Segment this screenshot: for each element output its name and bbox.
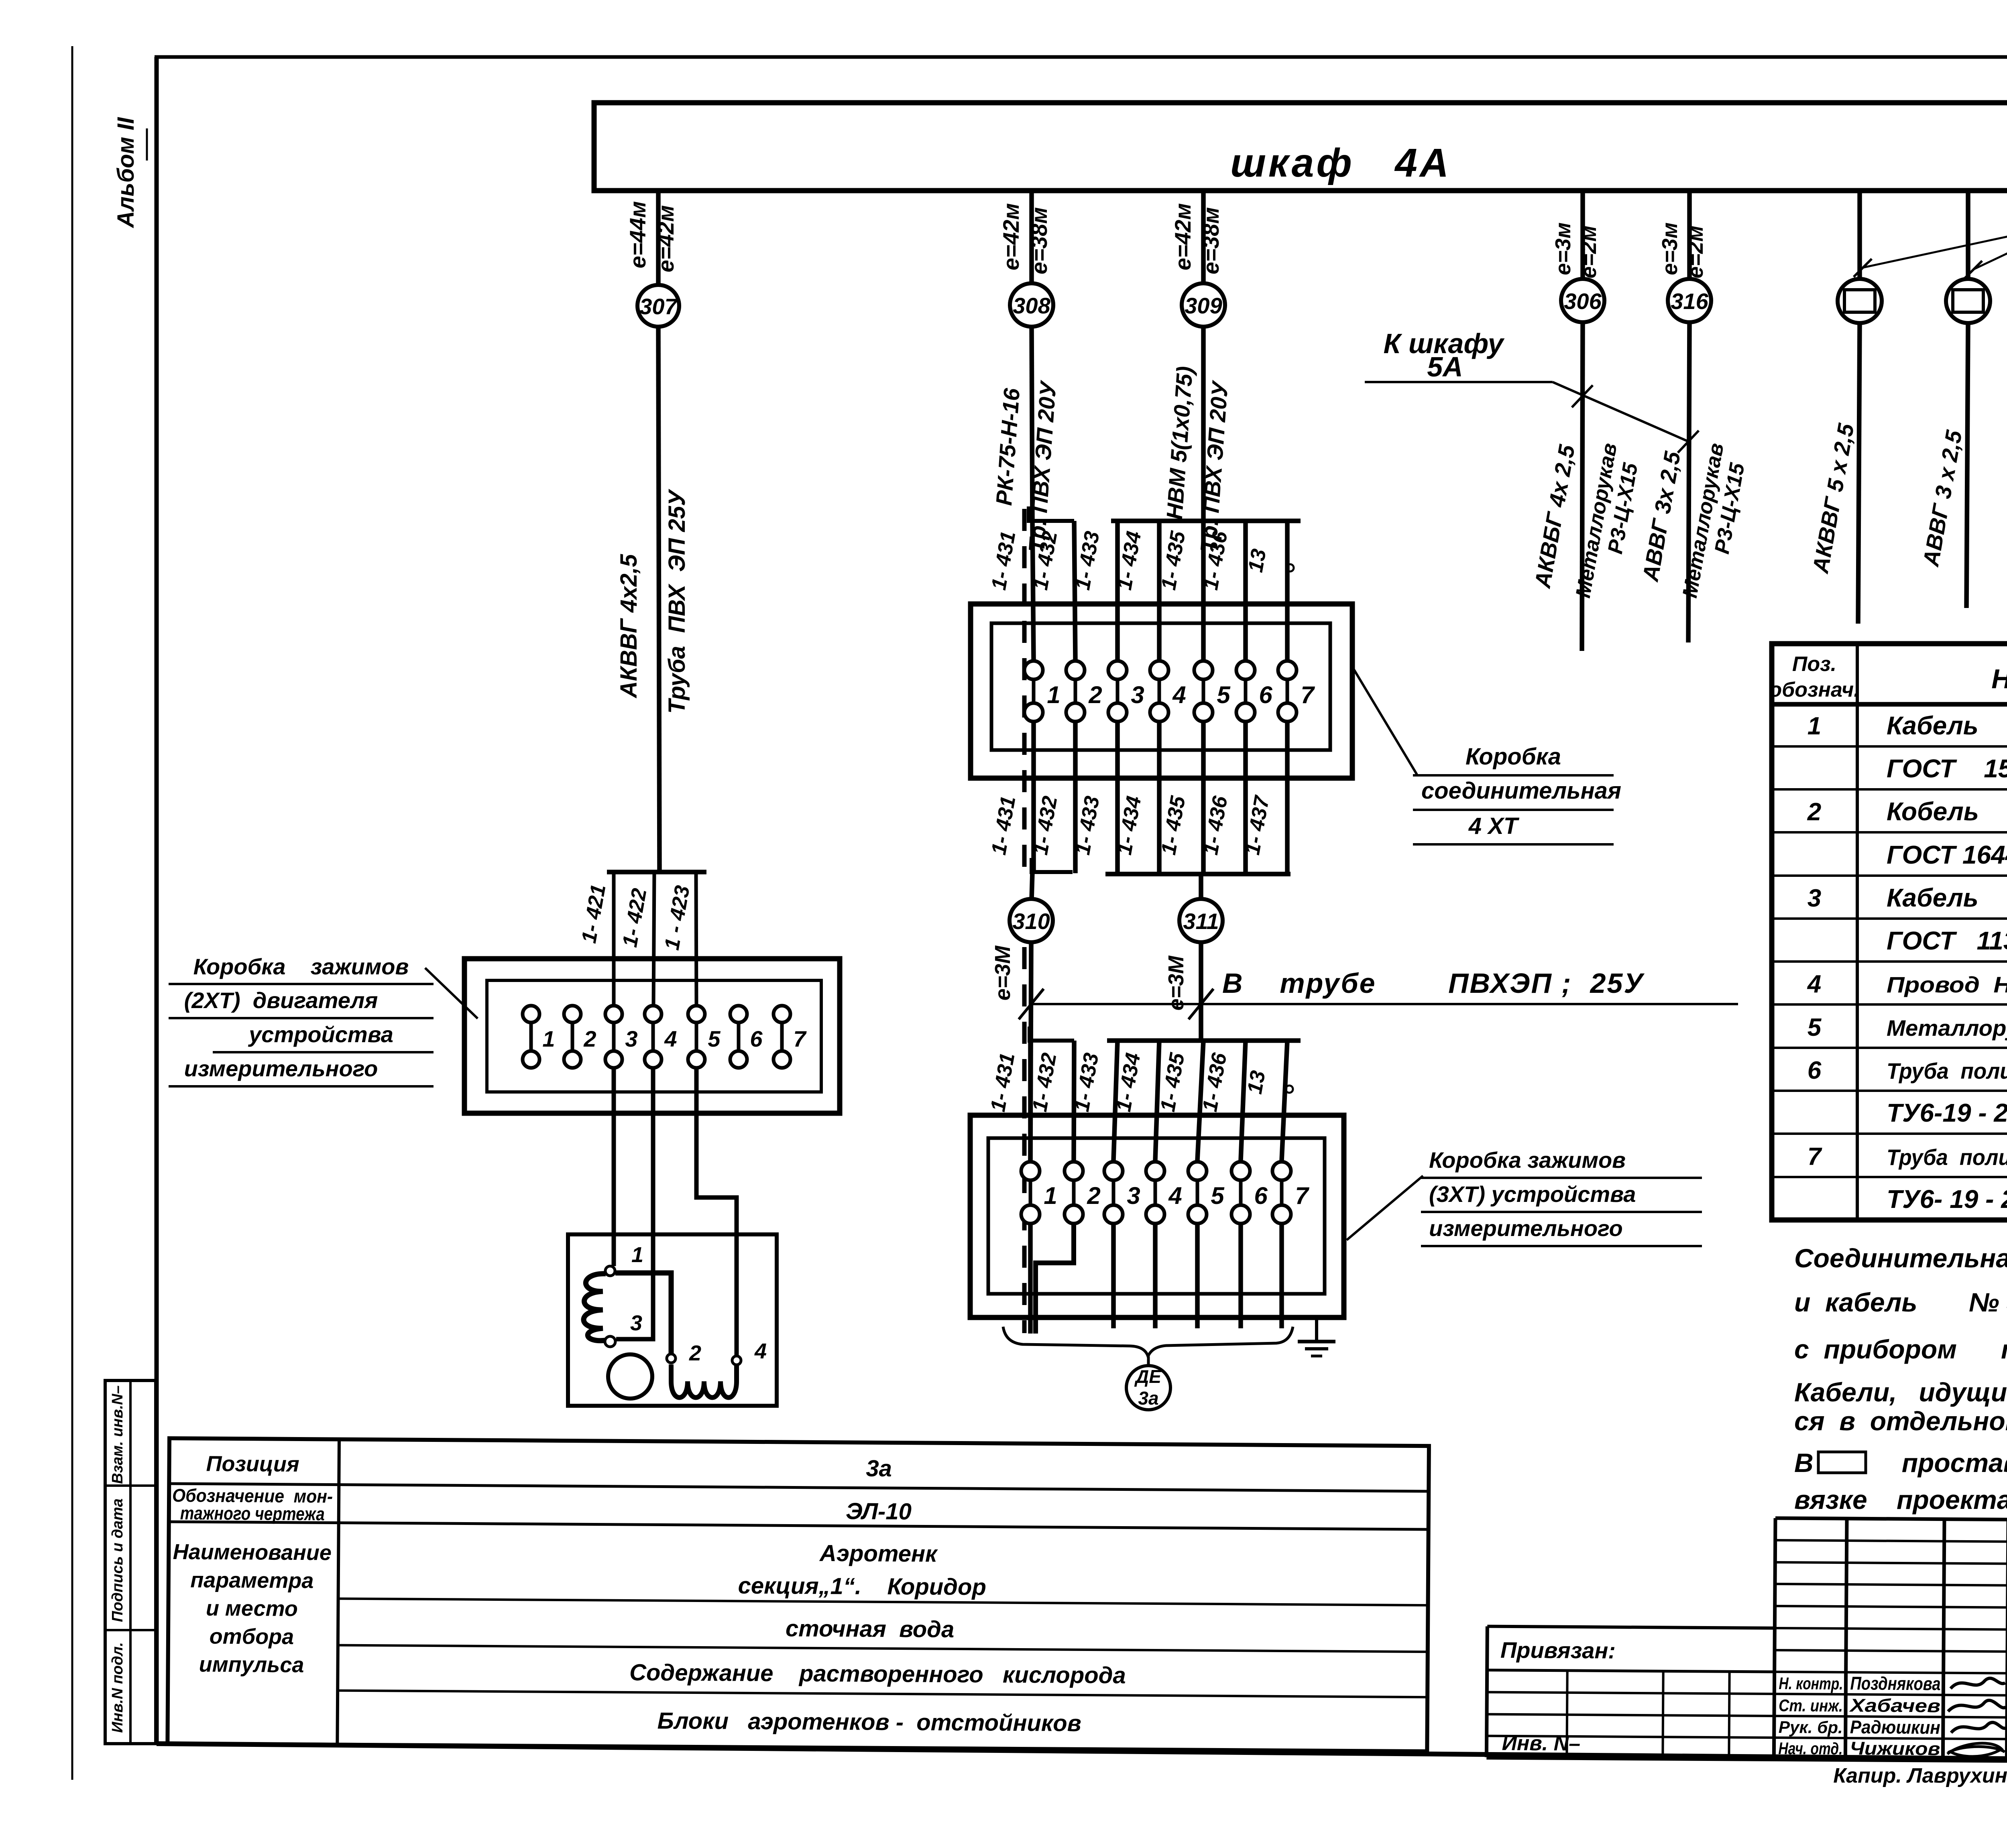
svg-text:5: 5 <box>1211 1182 1225 1209</box>
bus bar of cable 311 below 4XT <box>1105 872 1291 876</box>
wire 1-431 above 3XT <box>1028 1041 1033 1161</box>
2XT terminal 6 <box>737 1023 741 1051</box>
svg-text:е=42м: е=42м <box>998 203 1024 270</box>
svg-text:309: 309 <box>1185 293 1222 318</box>
svg-text:е=44м: е=44м <box>625 201 650 268</box>
svg-text:Труба ПВХ ЭП 25У: Труба ПВХ ЭП 25У <box>664 489 690 714</box>
svg-text:шкаф 4А: шкаф 4А <box>1230 140 1451 185</box>
svg-text:5А: 5А <box>1427 351 1463 382</box>
small circle on label 13 <box>1286 564 1294 571</box>
svg-text:е=2м: е=2м <box>1683 226 1708 279</box>
cable marker circle 310 <box>1010 899 1053 942</box>
svg-text:Хабачев: Хабачев <box>1848 1695 1940 1716</box>
svg-text:Позиция: Позиция <box>206 1452 299 1476</box>
lead to sensor circle <box>1147 1356 1150 1366</box>
2XT terminal 4 <box>651 1023 655 1051</box>
svg-text:13: 13 <box>1243 1069 1270 1096</box>
svg-text:Кабель РК-75- 4-16: Кабель РК-75- 4-16 <box>1887 883 2007 912</box>
screen dashed conductor (lower) <box>1022 947 1027 1333</box>
svg-text:4: 4 <box>754 1339 767 1363</box>
wire 1-431 above 4XT <box>1032 521 1034 660</box>
svg-text:ГОСТ 16442-80: ГОСТ 16442-80 <box>1887 840 2007 869</box>
svg-text:Коробка: Коробка <box>1466 744 1561 770</box>
svg-text:Кобель АВВГ 3х 2,5: Кобель АВВГ 3х 2,5 <box>1887 797 2007 826</box>
wire below 3XT terminal 7 <box>1279 1225 1284 1328</box>
svg-text:2: 2 <box>1087 1182 1100 1209</box>
wire 307 drop from cabinet <box>656 191 661 285</box>
svg-text:ГОСТ 1508-78Е: ГОСТ 1508-78Е <box>1887 754 2007 783</box>
svg-text:Кабели, идущие к щиту: Кабели, идущие к щиту диспетчера, учитыв… <box>1794 1377 2007 1407</box>
svg-text:измерительного: измерительного <box>184 1056 378 1081</box>
cable marker circle 306 <box>1561 279 1604 322</box>
bus bar of cable 311 above 3XT <box>1107 1038 1301 1043</box>
svg-text:3а: 3а <box>1138 1388 1158 1409</box>
svg-text:Содержание растворенного: Содержание растворенного кислорода <box>629 1659 1126 1689</box>
cable marker circle 307 <box>637 285 679 327</box>
wire below 3XT terminal 5 <box>1195 1225 1200 1328</box>
svg-text:306: 306 <box>1564 289 1602 314</box>
svg-text:Нач. отд.: Нач. отд. <box>1778 1739 1842 1758</box>
wire 307 continues down <box>658 327 660 872</box>
svg-text:3а: 3а <box>866 1456 892 1482</box>
svg-text:5: 5 <box>1808 1014 1822 1041</box>
motor device box <box>568 1234 777 1406</box>
3XT terminal 1 <box>1029 1180 1032 1205</box>
svg-text:316: 316 <box>1671 289 1708 314</box>
svg-text:Труба поливинилхлоридная ПВХЭ: Труба поливинилхлоридная ПВХЭП; 25У <box>1887 1145 2007 1170</box>
svg-text:Радюшкин: Радюшкин <box>1850 1716 1940 1738</box>
svg-text:параметра: параметра <box>190 1568 313 1593</box>
svg-text:3: 3 <box>1127 1182 1140 1209</box>
svg-text:Капир. Лаврухино: Капир. Лаврухино <box>1833 1764 2007 1787</box>
drop to circle 310 <box>1032 872 1032 899</box>
4XT terminal 6 <box>1244 679 1248 703</box>
loop wire from 3XT terminal 2 <box>1036 1225 1074 1334</box>
svg-text:сточная вода: сточная вода <box>786 1615 955 1643</box>
wire bundle below 3XT terminal 1 <box>1028 1225 1033 1334</box>
dispatcher cable 2 continues <box>1966 323 1968 608</box>
pair bracket below 4XT <box>1032 858 1073 872</box>
4XT terminal 4 <box>1158 679 1161 703</box>
svg-text:Чижиков: Чижиков <box>1850 1738 1940 1759</box>
leader arrows to dispatcher cables <box>1862 223 2007 268</box>
pipe note line В трубе ПВХЭП 25У <box>1031 1003 1738 1005</box>
svg-text:1: 1 <box>1808 712 1821 740</box>
svg-text:2: 2 <box>583 1026 596 1051</box>
cable marker circle 311 <box>1179 899 1223 942</box>
2XT terminal 5 <box>695 1023 698 1051</box>
4XT terminal 1 <box>1032 679 1036 703</box>
svg-text:Наименование: Наименование <box>1991 664 2007 694</box>
wire 1-434 above 4XT <box>1157 521 1162 660</box>
ground symbol <box>1298 1340 1335 1344</box>
wire from 2XT-5 to motor terminal 4 <box>696 1068 737 1356</box>
wire 1-421 <box>612 872 616 1006</box>
wire 311 down to bus <box>1199 942 1203 1041</box>
svg-text:7: 7 <box>1808 1143 1822 1171</box>
svg-text:Аэротенк: Аэротенк <box>819 1540 938 1567</box>
svg-text:(3ХТ) устройства: (3ХТ) устройства <box>1429 1181 1636 1207</box>
svg-text:устройства: устройства <box>248 1022 393 1047</box>
svg-text:ТУ6- 19 - 215-83: ТУ6- 19 - 215-83 <box>1887 1185 2007 1214</box>
svg-text:е=38м: е=38м <box>1026 207 1052 274</box>
wire 1-432 below 4XT <box>1073 723 1078 873</box>
fanout bar of cable 307 <box>607 870 706 874</box>
wire 1-433 above 4XT <box>1115 521 1120 660</box>
svg-text:4: 4 <box>1168 1182 1182 1209</box>
svg-text:ДЕ: ДЕ <box>1134 1366 1162 1387</box>
svg-text:е=3м: е=3м <box>1658 222 1682 275</box>
wire 308 drop from cabinet <box>1029 191 1034 283</box>
svg-text:3: 3 <box>1131 681 1144 708</box>
svg-text:2: 2 <box>689 1341 701 1365</box>
svg-text:Ст. инж.: Ст. инж. <box>1779 1696 1843 1715</box>
svg-text:5: 5 <box>1217 681 1231 708</box>
3XT terminal 4 <box>1154 1180 1157 1205</box>
svg-text:секция„1“. Коридор: секция„1“. Коридор <box>738 1573 986 1600</box>
svg-text:ЭЛ-10: ЭЛ-10 <box>846 1498 912 1525</box>
small circle on label 13 (lower) <box>1286 1086 1293 1093</box>
margin stamp table <box>105 1380 156 1744</box>
drop to circle 311 <box>1199 874 1203 899</box>
wire 1-437 below 4XT <box>1285 723 1290 873</box>
wire 13 above 3XT <box>1282 1041 1287 1161</box>
svg-text:соединительная: соединительная <box>1421 778 1621 804</box>
screen dashed conductor (upper) <box>1022 509 1027 871</box>
svg-text:6: 6 <box>1259 681 1272 708</box>
svg-text:Коробка зажимов: Коробка зажимов <box>1429 1147 1626 1173</box>
wire 1-433 above 3XT <box>1113 1041 1117 1161</box>
wire below 3XT terminal 6 <box>1238 1225 1243 1328</box>
svg-text:Подпись и дата: Подпись и дата <box>109 1498 126 1622</box>
motor terminal 1 <box>605 1266 615 1276</box>
wire 1-436 above 4XT <box>1243 521 1248 660</box>
svg-text:4: 4 <box>1172 681 1186 708</box>
svg-text:5: 5 <box>708 1026 721 1051</box>
svg-text:3: 3 <box>1808 884 1821 912</box>
wire below 3XT terminal 4 <box>1153 1225 1158 1328</box>
svg-text:ся в отдельном проекте.: ся в отдельном проекте. <box>1794 1406 2007 1436</box>
2XT terminal 2 <box>571 1023 574 1051</box>
wire 316 continues <box>1688 322 1689 642</box>
motor circle symbol <box>608 1354 652 1399</box>
svg-text:Взам. инв.N–: Взам. инв.N– <box>109 1385 126 1484</box>
wire 309 drop from cabinet <box>1201 191 1206 283</box>
wire 1-432 above 4XT <box>1074 521 1075 660</box>
svg-text:6: 6 <box>1254 1182 1268 1209</box>
wire 1-433 below 4XT <box>1115 723 1120 873</box>
title block <box>1486 1517 2007 1764</box>
wire 1-432 above 3XT <box>1074 1041 1074 1161</box>
2XT terminal 1 <box>529 1023 533 1051</box>
svg-text:311: 311 <box>1183 909 1219 934</box>
svg-text:1: 1 <box>1044 1182 1057 1209</box>
leader to 2XT box <box>425 968 478 1019</box>
svg-text:Провод НВМ 1х0,75 ГОСТ 17515-: Провод НВМ 1х0,75 ГОСТ 17515-72 <box>1887 972 2007 997</box>
svg-text:е=38м: е=38м <box>1198 207 1223 274</box>
motor terminal 2 <box>667 1354 676 1363</box>
svg-text:с прибором поз. 3: с прибором поз. 3 <box>1794 1334 2007 1364</box>
terminal box 2XT inner <box>487 980 821 1092</box>
wire 1-436 below 4XT <box>1243 723 1248 873</box>
cabinet Шкаф 4А <box>594 103 2007 191</box>
2XT terminal 7 <box>780 1023 784 1051</box>
wire 1-434 above 3XT <box>1155 1041 1159 1161</box>
svg-text:вязке проекта.: вязке проекта. <box>1794 1485 2007 1515</box>
svg-text:обознач.: обознач. <box>1769 678 1859 701</box>
junction box 4XT inner <box>991 623 1330 750</box>
3XT terminal 5 <box>1196 1180 1199 1205</box>
2XT terminal 3 <box>612 1023 616 1051</box>
svg-text:307: 307 <box>639 294 678 319</box>
motor terminal 4 <box>732 1356 741 1365</box>
bridge wire terminal1 to terminal 2 <box>615 1273 671 1354</box>
winding 2-4 coil <box>671 1364 737 1398</box>
signatures scribbles <box>1950 1678 2005 1689</box>
cable marker circle 316 <box>1668 279 1711 322</box>
parameter table <box>167 1438 1429 1751</box>
svg-text:и место: и место <box>206 1596 298 1621</box>
cable marker circle 309 <box>1182 283 1225 327</box>
svg-text:4: 4 <box>1807 970 1821 998</box>
svg-text:отбора: отбора <box>210 1624 294 1649</box>
motor terminal 3 <box>605 1336 615 1347</box>
4XT terminal 3 <box>1116 679 1120 703</box>
wire 1-434 below 4XT <box>1157 723 1162 873</box>
svg-text:1: 1 <box>631 1243 643 1267</box>
wire 316 drop from cabinet <box>1687 191 1692 279</box>
wire below 3XT terminal 3 <box>1111 1225 1116 1328</box>
wire 1-431 below 4XT <box>1031 723 1036 873</box>
svg-text:7: 7 <box>793 1026 807 1051</box>
svg-text:е=3М: е=3М <box>991 945 1015 1001</box>
wire from 2XT-4 to motor terminal 3 <box>616 1068 653 1339</box>
svg-text:2: 2 <box>1088 681 1102 708</box>
svg-text:3: 3 <box>625 1026 637 1051</box>
wire 306 drop from cabinet <box>1580 191 1585 279</box>
cable seal symbol 2 <box>1946 279 1990 323</box>
wire 310 down to 3XT <box>1030 942 1031 1161</box>
svg-text:импульса: импульса <box>199 1652 304 1677</box>
wire 1-435 above 4XT <box>1201 521 1206 660</box>
svg-text:Наименование: Наименование <box>173 1540 332 1565</box>
svg-text:(2ХТ) двигателя: (2ХТ) двигателя <box>184 988 378 1013</box>
svg-text:Металлорукав Р3-Ц-Х15 ТУ22.21: Металлорукав Р3-Ц-Х15 ТУ22.2173-71 <box>1887 1015 2007 1041</box>
4XT terminal 2 <box>1074 679 1077 703</box>
svg-text:308: 308 <box>1013 293 1050 318</box>
Привязан block <box>1486 1626 1487 1757</box>
wire 13 above 4XT <box>1285 521 1290 660</box>
svg-text:13: 13 <box>1244 547 1271 574</box>
pair bracket above 4XT <box>1029 506 1074 521</box>
svg-text:и кабель № 311 постав: и кабель № 311 поставляются в комплекте <box>1794 1287 2007 1317</box>
label Коробка зажимов (3ХТ) устройства измерительного <box>1347 1176 1423 1240</box>
bus bar of cable 309 above 4XT <box>1111 518 1301 523</box>
wire from 2XT-3 to motor <box>612 1068 616 1266</box>
3XT terminal 6 <box>1239 1180 1243 1205</box>
svg-text:Поз.: Поз. <box>1792 653 1836 676</box>
wire 1-422 <box>653 872 654 1006</box>
brace under wires <box>1003 1327 1293 1356</box>
wire 308 continues <box>1032 327 1032 521</box>
wire 1-435 below 4XT <box>1201 723 1206 873</box>
sensor circle ДЕ 3а <box>1126 1366 1170 1410</box>
wire 1-436 above 3XT <box>1241 1041 1246 1161</box>
svg-text:Кабель АКВВГ 4х2,5: Кабель АКВВГ 4х2,5 <box>1887 711 2007 740</box>
wire 306 continues <box>1582 322 1583 651</box>
cable number box symbol in note <box>1818 1452 1866 1473</box>
svg-text:7: 7 <box>1295 1182 1309 1209</box>
svg-text:е=2м: е=2м <box>1577 226 1601 279</box>
ground conductor from 3XT <box>1315 1317 1318 1340</box>
winding 1-3 coil <box>584 1274 606 1341</box>
svg-text:Блоки аэротенков - отстойни: Блоки аэротенков - отстойников <box>657 1708 1081 1736</box>
svg-text:е=42м: е=42м <box>653 205 678 272</box>
cable seal symbol 1 <box>1838 279 1882 323</box>
svg-text:7: 7 <box>1301 681 1315 708</box>
wire 1-423 <box>696 872 696 1006</box>
svg-text:1: 1 <box>542 1026 555 1051</box>
svg-text:4: 4 <box>664 1026 677 1051</box>
svg-text:4 ХТ: 4 ХТ <box>1468 813 1520 839</box>
wire 309 continues <box>1201 327 1206 521</box>
svg-text:Привязан:: Привязан: <box>1500 1637 1616 1663</box>
svg-text:Коробка зажимов: Коробка зажимов <box>193 954 409 979</box>
svg-text:Соединительная коробка: Соединительная коробка 4ХТ, провод N– 31… <box>1794 1243 2007 1273</box>
svg-text:2: 2 <box>1807 798 1821 826</box>
dispatcher cable 1 continues <box>1858 323 1860 624</box>
cable marker circle 308 <box>1010 283 1053 327</box>
terminal box 3XT outer <box>970 1115 1344 1317</box>
junction box 4XT outer <box>971 604 1352 778</box>
svg-text:Альбом II: Альбом II <box>113 117 139 229</box>
svg-text:6: 6 <box>1808 1057 1822 1084</box>
svg-text:Труба поливинилхлоридная ПВХЭ: Труба поливинилхлоридная ПВХЭП;20У <box>1887 1058 2007 1084</box>
terminal box 2XT outer <box>464 959 840 1113</box>
label Коробка соединительная 4ХТ <box>1351 664 1417 775</box>
svg-text:Позднякова: Позднякова <box>1850 1673 1940 1694</box>
3XT terminal 3 <box>1112 1180 1115 1205</box>
wire 1-435 above 3XT <box>1197 1041 1203 1161</box>
svg-text:310: 310 <box>1012 909 1050 934</box>
cable list table <box>1772 644 2007 1220</box>
4XT terminal 5 <box>1202 679 1205 703</box>
svg-text:е=42м: е=42м <box>1170 203 1195 270</box>
dispatcher cable 2 drop <box>1966 191 1970 279</box>
svg-text:1: 1 <box>1047 681 1060 708</box>
svg-text:Инв. N–: Инв. N– <box>1502 1732 1580 1755</box>
pair bracket above 3XT <box>1030 1027 1074 1041</box>
dispatcher cable 1 drop <box>1857 191 1862 279</box>
svg-text:6: 6 <box>750 1026 763 1051</box>
3XT terminal 2 <box>1072 1180 1076 1205</box>
terminal box 3XT inner <box>988 1138 1325 1294</box>
svg-text:тажного чертежа: тажного чертежа <box>180 1502 325 1524</box>
svg-text:3: 3 <box>630 1311 642 1335</box>
svg-text:В трубе ПВХЭП ; 25У: В трубе ПВХЭП ; 25У <box>1222 968 1645 999</box>
4XT terminal 7 <box>1286 679 1289 703</box>
svg-text:Рук. бр.: Рук. бр. <box>1779 1718 1843 1737</box>
svg-text:измерительного: измерительного <box>1429 1216 1623 1241</box>
svg-text:ТУ6-19 - 215 -83: ТУ6-19 - 215 -83 <box>1887 1098 2007 1127</box>
svg-text:ГОСТ 11326. 23-71: ГОСТ 11326. 23-71 <box>1887 926 2007 955</box>
svg-text:е=3м: е=3м <box>1551 222 1575 275</box>
svg-text:АКВВГ 4х2,5: АКВВГ 4х2,5 <box>616 554 642 699</box>
svg-text:е=3М: е=3М <box>1164 956 1188 1011</box>
svg-text:Инв.N подл.: Инв.N подл. <box>109 1642 126 1733</box>
3XT terminal 7 <box>1280 1180 1284 1205</box>
svg-text:Н. контр.: Н. контр. <box>1779 1674 1843 1693</box>
